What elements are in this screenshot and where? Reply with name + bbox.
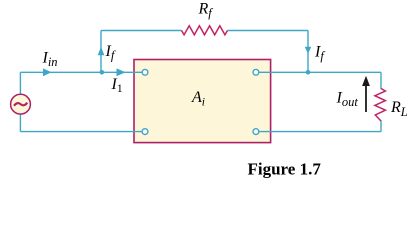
arrow I_1	[117, 68, 126, 76]
svg-text:If: If	[105, 43, 116, 63]
wire: output horizontal from top-right terminal to right corner	[259, 71, 381, 73]
wire: right feedback vertical	[307, 31, 309, 73]
svg-text:If: If	[314, 44, 325, 64]
wire: left vertical from input corner down to source top	[19, 72, 21, 94]
svg-text:Rf: Rf	[198, 1, 214, 21]
wire: top feedback rail right of R_f	[228, 30, 309, 32]
svg-text:Iout: Iout	[336, 89, 359, 109]
source V1 (AC)	[11, 94, 31, 114]
arrow I_out (black, up)	[365, 85, 367, 113]
wire: left vertical from source bottom to bottom rail	[19, 115, 21, 132]
svg-text:I1: I1	[111, 76, 123, 95]
source tilde mark	[14, 103, 27, 106]
wire: left feedback vertical	[100, 31, 102, 73]
wire: top feedback rail left of R_f	[101, 30, 182, 32]
resistor R_f	[182, 26, 228, 35]
terminal pin top-left	[142, 69, 148, 75]
wire: right vertical below R_L	[380, 121, 382, 132]
resistor R_L	[375, 89, 386, 122]
wire: right vertical above R_L	[380, 72, 382, 89]
svg-text:RL: RL	[390, 99, 408, 119]
wire: bottom rail left segment to amplifier bottom-left terminal	[20, 131, 141, 133]
amplifier U1 box	[134, 60, 271, 143]
arrow I_f left (up)	[98, 47, 105, 56]
node B junction dot (right)	[306, 70, 311, 75]
wire: input horizontal from source corner to amplifier input terminal	[20, 71, 141, 73]
arrow I_in	[43, 68, 52, 76]
node A junction dot (left)	[100, 70, 105, 75]
svg-text:Iin: Iin	[42, 49, 58, 69]
svg-text:Figure 1.7: Figure 1.7	[248, 159, 322, 178]
terminal pin top-right	[253, 69, 259, 75]
arrow I_f right (down)	[305, 47, 312, 54]
wire: bottom rail right segment from amplifier bottom-right terminal	[259, 131, 381, 133]
terminal pin bottom-right	[253, 129, 259, 135]
terminal pin bottom-left	[142, 129, 148, 135]
